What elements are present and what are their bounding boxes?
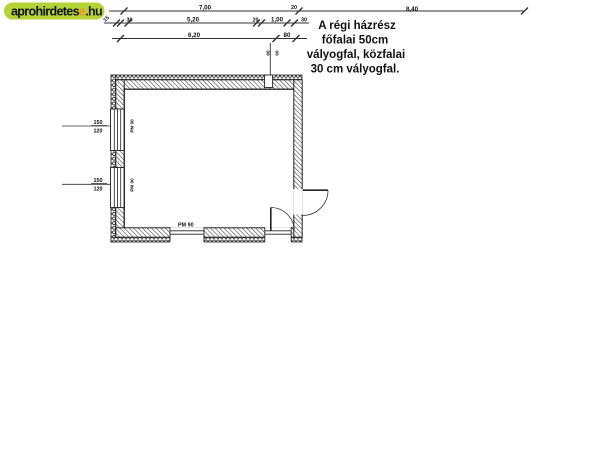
svg-text:PM 90: PM 90 <box>178 223 194 229</box>
svg-text:PM 90: PM 90 <box>130 119 135 133</box>
svg-text:A régi házrész: A régi házrész <box>318 20 396 32</box>
old house outer insulation band (dotted) top <box>111 75 302 80</box>
svg-text:20: 20 <box>253 18 259 24</box>
labels 150/120 window W1 <box>91 120 107 135</box>
svg-text:15: 15 <box>102 15 110 23</box>
old house main wall top (hatched 50cm) <box>116 80 302 89</box>
flue / vent leader with 60|60 <box>266 43 280 76</box>
dimension line 6,20 / 80 (third row) <box>112 35 307 42</box>
window W2 opening in left wall <box>111 168 125 208</box>
labels 150/120 window W2 <box>91 178 107 193</box>
svg-text:7,00: 7,00 <box>199 5 212 12</box>
svg-text:120: 120 <box>94 129 103 135</box>
old house insulation band left <box>111 75 116 242</box>
old house insulation band bottom <box>111 237 302 242</box>
svg-text:20: 20 <box>291 5 297 11</box>
door swing arc D2 <box>271 208 295 232</box>
door opening D2 in bottom wall (hall to terrace) <box>265 227 291 242</box>
svg-text:1,00: 1,00 <box>271 17 284 24</box>
door swing arc D3 <box>303 190 328 215</box>
svg-text:120: 120 <box>94 187 103 193</box>
door opening D1 in bottom wall (kitchen exit, PM 90) <box>170 227 204 242</box>
svg-text:30: 30 <box>301 18 307 24</box>
svg-text:6,20: 6,20 <box>188 32 201 39</box>
svg-text:aprohirdetese.hu: aprohirdetese.hu <box>11 5 102 19</box>
svg-text:150: 150 <box>94 178 103 184</box>
svg-text:5,20: 5,20 <box>187 17 200 24</box>
dimension line 7,00 / 8,40 (top row) <box>109 8 528 15</box>
old house main wall right (hatched) <box>294 80 302 237</box>
svg-text:80: 80 <box>284 32 291 39</box>
old house inner outline <box>124 89 294 228</box>
door leaf D3 <box>303 189 328 191</box>
svg-text:30 cm vályogfal.: 30 cm vályogfal. <box>311 64 400 76</box>
dimension line 15/30/5,20/20/1,00/30 (second row) <box>104 20 309 27</box>
old house main wall left (hatched 50cm) <box>116 80 124 237</box>
svg-text:8,40: 8,40 <box>406 6 419 13</box>
svg-text:30: 30 <box>127 18 133 24</box>
svg-text:60: 60 <box>266 50 271 56</box>
svg-text:főfalai 50cm: főfalai 50cm <box>322 35 388 47</box>
leader line window W2 <box>62 183 111 185</box>
door leaf D2 <box>270 208 272 232</box>
window W1 opening in left wall <box>111 109 125 151</box>
door opening D3 in right wall (to nappali) <box>293 189 302 215</box>
niche in top wall (flue) <box>265 75 273 88</box>
old house main wall bottom (hatched 50cm) <box>116 228 302 237</box>
svg-text:60: 60 <box>275 50 280 56</box>
logo aprohirdetes.hu <box>4 3 105 20</box>
leader line window W1 <box>62 125 111 127</box>
svg-text:150: 150 <box>94 120 103 126</box>
svg-text:vályogfal, közfalai: vályogfal, közfalai <box>307 49 405 61</box>
note text: A régi házrész főfalai 50cm vályogfal, közfalai 30 cm vályogfal. <box>307 20 405 76</box>
svg-text:PM 90: PM 90 <box>130 178 135 192</box>
